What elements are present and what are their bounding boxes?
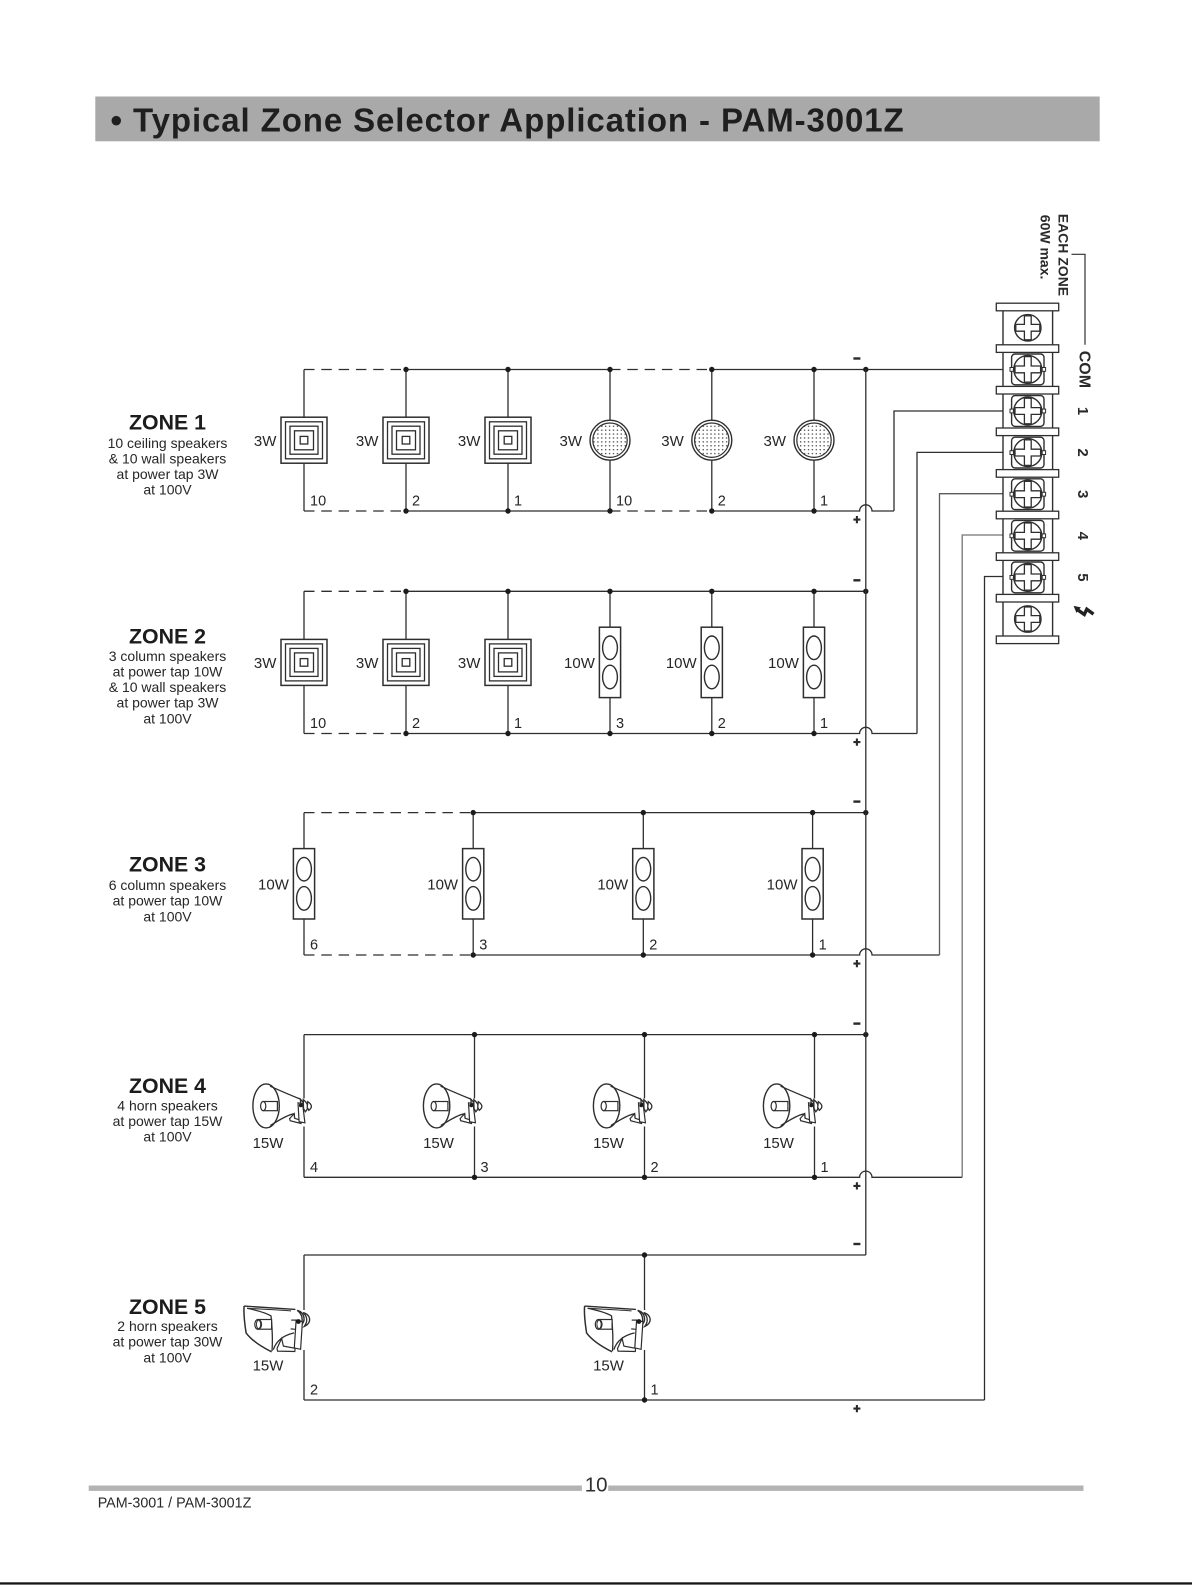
callout line: EACH ZONE to terminals [1072,254,1086,344]
junction: zone 1 bottom bus / column 4 [607,508,612,513]
svg-text:15W: 15W [253,1358,285,1375]
footer rule right [608,1486,1083,1491]
svg-text:10W: 10W [597,877,629,894]
node: ZONE 5 description label [113,1295,224,1365]
svg-text:10: 10 [310,716,326,732]
wire: zone 2 speaker column 4 [609,591,611,733]
wire: common minus bus (vertical) to COM [865,370,867,1256]
speaker: zone 1 ceiling speaker 6 (3W) [794,420,834,460]
wire: zone 3 speaker column 1 [303,813,305,955]
speaker: zone 2 column speaker 5 (10W) [701,627,722,697]
svg-text:• Typical Zone Selector Applic: • Typical Zone Selector Application - PA… [111,102,905,139]
svg-text:COM: COM [1075,351,1092,388]
label: zone 4 plus polarity [853,1182,860,1189]
svg-text:at power tap 10W: at power tap 10W [113,893,224,909]
svg-text:2: 2 [310,1383,318,1399]
svg-text:ZONE 2: ZONE 2 [129,624,206,648]
footer rule left [89,1486,582,1491]
terminal screw 2 [1010,437,1046,468]
wire: zone 5 minus bus (top), runs to common - riser [304,1254,866,1256]
speaker: zone 4 horn speaker 4 (15W) [813,1099,816,1127]
junction: zone 2 bottom bus / column 2 [403,731,408,736]
junction: zone 3 top bus / column 2 [471,810,476,815]
svg-text:at 100V: at 100V [143,710,192,726]
wire: zone 4 riser to terminal screw 4 [962,535,1015,1177]
svg-text:15W: 15W [593,1358,625,1375]
wire: zone 4 speaker column 1 [303,1035,305,1178]
terminal screw COM [1010,354,1046,385]
svg-text:3W: 3W [356,655,379,672]
speaker: zone 3 column speaker 2 (10W) [463,849,484,919]
terminal screw 1 [1010,396,1046,427]
svg-text:3W: 3W [560,433,583,450]
terminal block flange 1 [996,303,1058,311]
svg-text:ZONE 1: ZONE 1 [129,411,206,435]
junction: zone 1 top bus / column 2 [403,367,408,372]
junction: zone 2 top bus / column 2 [403,589,408,594]
svg-text:PAM-3001 / PAM-3001Z: PAM-3001 / PAM-3001Z [98,1496,252,1512]
svg-text:10: 10 [616,494,632,510]
terminal block flange 5 [996,470,1058,478]
junction: zone 2 bottom bus / column 6 [811,731,816,736]
label: zone 1 plus polarity [853,516,860,523]
speaker: zone 4 horn speaker 1 (15W) [302,1099,305,1127]
speaker: zone 2 wall speaker 2 (3W) [383,639,429,685]
wire: zone 4 speaker column 2 [474,1035,476,1178]
junction: zone 3 bottom bus / column 3 [641,952,646,957]
junction: zone 2 bottom bus / column 5 [709,731,714,736]
junction: zone 5 bottom bus / column 2 [642,1397,647,1402]
junction: zone 3 top bus / common minus bus [863,810,868,815]
wire: zone 4 plus bus (bottom) with hop and riser to terminal 4 [304,1171,962,1177]
svg-text:10: 10 [585,1474,608,1497]
label: zone 1 minus polarity [853,357,860,359]
junction: zone 2 top bus / column 5 [709,589,714,594]
svg-text:at power tap 15W: at power tap 15W [113,1113,224,1129]
speaker: zone 1 ceiling speaker 5 (3W) [692,420,732,460]
svg-text:1: 1 [821,1160,829,1176]
wire: zone 3 riser to terminal screw 3 [940,494,1016,955]
svg-text:1: 1 [651,1383,659,1399]
speaker: zone 1 wall speaker 1 (3W) [281,417,327,463]
junction: zone 3 bottom bus / column 4 [810,952,815,957]
wire: zone 3 speaker column 4 [812,813,814,955]
svg-text:3W: 3W [254,655,277,672]
node: ZONE 4 description label [113,1074,224,1145]
wire: zone 4 minus bus (top), runs to common - riser [304,1034,866,1036]
svg-text:15W: 15W [423,1135,455,1152]
junction: zone 5 top bus / column 2 [642,1252,647,1257]
svg-text:1: 1 [820,716,828,732]
svg-text:60W max.: 60W max. [1038,215,1054,280]
label: zone 5 plus polarity [853,1405,860,1412]
terminal screw bottom (unused) [1015,606,1041,632]
wire: zone 3 minus bus (top), runs to common - riser [304,812,473,814]
label: zone 3 plus polarity [853,960,860,967]
junction: zone 3 top bus / column 3 [641,810,646,815]
symbol: lightning bolt (speaker line hazard) [1078,609,1094,614]
junction: zone 1 top bus / column 4 [607,367,612,372]
node: ZONE 1 description label [108,411,228,498]
svg-text:1: 1 [514,494,522,510]
svg-text:3W: 3W [356,433,379,450]
junction: zone 2 top bus / column 3 [505,589,510,594]
svg-text:at 100V: at 100V [143,1129,192,1145]
junction: zone 4 bottom bus / column 3 [642,1175,647,1180]
terminal screw 3 [1010,479,1046,510]
svg-text:EACH ZONE: EACH ZONE [1056,214,1072,296]
wire: zone 1 speaker column 3 [507,370,509,512]
speaker: zone 3 column speaker 3 (10W) [633,849,654,919]
junction: zone 4 top bus / column 4 [812,1032,817,1037]
wire: zone 1 speaker column 4 [609,370,611,512]
junction: zone 2 top bus / common minus bus [863,589,868,594]
svg-text:10W: 10W [564,655,596,672]
wire: zone 1 plus bus (bottom) with hop and riser to terminal 1 [304,510,406,512]
svg-text:10W: 10W [427,877,459,894]
terminal block flange 8 [996,594,1058,602]
svg-text:10 ceiling speakers: 10 ceiling speakers [108,435,228,451]
junction: zone 1 top bus / column 5 [709,367,714,372]
svg-text:10W: 10W [768,655,800,672]
svg-text:10W: 10W [767,877,799,894]
speaker: zone 1 ceiling speaker 4 (3W) [590,420,630,460]
junction: zone 4 bottom bus / column 4 [812,1175,817,1180]
svg-text:10: 10 [310,494,326,510]
wire: zone 2 riser to terminal screw 2 [917,452,1015,733]
terminal block flange 2 [996,345,1058,353]
speaker: zone 2 column speaker 6 (10W) [803,627,824,697]
speaker: zone 2 column speaker 4 (10W) [599,627,620,697]
terminal screw 5 [1010,562,1046,593]
svg-text:1: 1 [820,494,828,510]
svg-text:3W: 3W [661,433,684,450]
speaker: zone 5 horn speaker 2 (15W) [643,1310,646,1350]
terminal block flange 7 [996,553,1058,561]
junction: zone 1 bottom bus / column 3 [505,508,510,513]
svg-text:3: 3 [481,1160,489,1176]
junction: zone 1 bottom bus / column 5 [709,508,714,513]
svg-text:2: 2 [651,1160,659,1176]
wire: zone 3 plus bus (bottom) with hop and riser to terminal 3 [304,954,473,956]
svg-text:at power tap 10W: at power tap 10W [113,664,224,680]
svg-text:at power tap 3W: at power tap 3W [117,466,220,482]
speaker: zone 2 wall speaker 1 (3W) [281,639,327,685]
wire: zone 5 speaker column 2 [644,1255,646,1400]
junction: zone 4 bottom bus / column 2 [472,1175,477,1180]
wire: zone 2 speaker column 2 [405,591,407,733]
svg-text:3W: 3W [254,433,277,450]
svg-text:10W: 10W [258,877,290,894]
wire: zone 1 speaker column 6 [813,370,815,512]
terminal screw 4 [1010,520,1046,551]
wire: zone 5 riser to terminal screw 5 [985,577,1016,1401]
speaker: zone 1 wall speaker 3 (3W) [485,417,531,463]
svg-text:3W: 3W [458,655,481,672]
junction: zone 1 bottom bus / column 6 [811,508,816,513]
wire: zone 1 speaker column 5 [711,370,713,512]
svg-text:4: 4 [1074,532,1091,541]
label: zone 2 minus polarity [853,579,860,581]
terminal screw top (unused) [1015,315,1041,341]
wire: zone 2 speaker column 5 [711,591,713,733]
junction: zone 4 top bus / common minus bus [863,1032,868,1037]
svg-text:5: 5 [1074,573,1091,581]
wire: zone 2 minus bus (top), runs to common - riser [304,590,406,592]
svg-text:15W: 15W [593,1135,625,1152]
label: zone 5 minus polarity [853,1243,860,1245]
svg-text:4 horn speakers: 4 horn speakers [117,1097,217,1113]
svg-text:3W: 3W [458,433,481,450]
speaker: zone 5 horn speaker 1 (15W) [302,1310,305,1350]
label: zone 3 minus polarity [853,800,860,802]
junction: zone 2 top bus / column 4 [607,589,612,594]
svg-text:15W: 15W [763,1135,795,1152]
node: ZONE 2 description label [109,624,227,726]
svg-text:ZONE 5: ZONE 5 [129,1295,206,1319]
svg-text:ZONE 3: ZONE 3 [129,853,206,877]
wire: zone 5 plus bus (bottom) with hop and riser to terminal 5 [304,1399,985,1401]
svg-text:2: 2 [1074,448,1091,456]
wire: zone 2 plus bus (bottom) with hop and riser to terminal 2 [304,733,406,735]
wire: zone 3 speaker column 2 [472,813,474,955]
svg-text:1: 1 [514,716,522,732]
node: ZONE 3 description label [109,853,227,925]
svg-text:3: 3 [479,938,487,954]
svg-text:at power tap 30W: at power tap 30W [113,1334,224,1350]
wire: zone 5 speaker column 1 [303,1255,305,1400]
svg-text:ZONE 4: ZONE 4 [129,1074,206,1098]
svg-text:3: 3 [1074,490,1091,498]
speaker: zone 3 column speaker 1 (10W) [293,849,314,919]
junction: zone 2 bottom bus / column 4 [607,731,612,736]
junction: zone 1 top bus / column 3 [505,367,510,372]
junction: zone 4 top bus / column 3 [642,1032,647,1037]
svg-text:at 100V: at 100V [143,482,192,498]
junction: zone 1 top bus / column 6 [811,367,816,372]
svg-text:2: 2 [412,494,420,510]
svg-text:at 100V: at 100V [143,1349,192,1365]
wire: zone 2 speaker column 3 [507,591,509,733]
svg-text:2: 2 [412,716,420,732]
junction: zone 4 top bus / column 2 [472,1032,477,1037]
svg-text:2 horn speakers: 2 horn speakers [117,1318,217,1334]
label: zone 2 plus polarity [853,739,860,746]
svg-text:& 10 wall speakers: & 10 wall speakers [109,679,227,695]
title bar [95,97,1099,142]
svg-text:10W: 10W [666,655,698,672]
svg-text:6: 6 [310,938,318,954]
terminal block flange 9 [996,636,1058,644]
junction: zone 1 top bus / common minus bus [863,367,868,372]
svg-text:& 10 wall speakers: & 10 wall speakers [109,451,227,467]
terminal block flange 6 [996,511,1058,519]
speaker: zone 4 horn speaker 2 (15W) [473,1099,476,1127]
wire: zone 4 speaker column 3 [644,1035,646,1178]
svg-text:2: 2 [718,716,726,732]
svg-text:15W: 15W [253,1135,285,1152]
svg-text:4: 4 [310,1160,318,1176]
svg-text:2: 2 [649,938,657,954]
wire: zone 2 speaker column 6 [813,591,815,733]
junction: zone 1 bottom bus / column 2 [403,508,408,513]
svg-text:3 column speakers: 3 column speakers [109,648,227,664]
wire: zone 1 minus bus (top), runs to COM terminal [304,369,406,371]
terminal block flange 4 [996,428,1058,436]
speaker: zone 2 wall speaker 3 (3W) [485,639,531,685]
wire: zone 4 speaker column 4 [814,1035,816,1178]
junction: zone 3 top bus / column 4 [810,810,815,815]
svg-text:1: 1 [1074,407,1091,415]
svg-text:at power tap 3W: at power tap 3W [117,695,220,711]
svg-text:at 100V: at 100V [143,908,192,924]
svg-text:3: 3 [616,716,624,732]
wire: zone 3 speaker column 3 [642,813,644,955]
svg-text:3W: 3W [764,433,787,450]
svg-text:1: 1 [819,938,827,954]
terminal block TB1 [1003,307,1053,640]
speaker: zone 1 wall speaker 2 (3W) [383,417,429,463]
label: zone 4 minus polarity [853,1022,860,1024]
speaker: zone 4 horn speaker 3 (15W) [643,1099,646,1127]
wire: zone 2 speaker column 1 [303,591,305,733]
junction: zone 2 bottom bus / column 3 [505,731,510,736]
speaker: zone 3 column speaker 4 (10W) [802,849,823,919]
svg-text:6 column speakers: 6 column speakers [109,877,227,893]
terminal block flange 3 [996,386,1058,394]
page bottom edge line [0,1582,1192,1584]
wire: zone 1 riser to terminal screw 1 [894,411,1015,511]
wire: zone 1 speaker column 1 [303,370,305,512]
wire: zone 1 speaker column 2 [405,370,407,512]
svg-text:2: 2 [718,494,726,510]
junction: zone 3 bottom bus / column 2 [471,952,476,957]
junction: zone 2 top bus / column 6 [811,589,816,594]
